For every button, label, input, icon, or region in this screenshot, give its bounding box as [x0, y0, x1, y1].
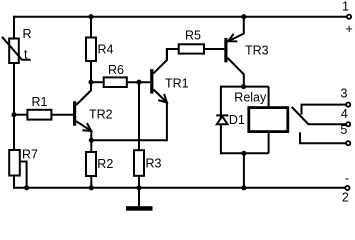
- wire R3 bottom to 0V rail: [138, 176, 140, 188]
- TR3 base bar: [224, 38, 227, 62]
- svg-text:4: 4: [341, 107, 348, 121]
- wire R4 bottom to TR2 collector node: [90, 61, 92, 82]
- transistor TR1 (NPN): [150, 49, 167, 103]
- relay coil: [249, 108, 288, 132]
- svg-text:TR1: TR1: [165, 77, 189, 91]
- svg-text:D1: D1: [229, 113, 245, 127]
- svg-text:5: 5: [340, 123, 347, 137]
- wire 0V rail to ground bar: [138, 188, 140, 206]
- transistor TR3 (PNP): [224, 17, 244, 87]
- svg-text:R7: R7: [22, 148, 38, 162]
- svg-text:2: 2: [342, 191, 349, 205]
- node B junction (R4 / R6 / TR2 collector): [88, 80, 93, 85]
- svg-text:R1: R1: [32, 95, 48, 109]
- TR3 emitter lead from + rail: [228, 17, 244, 42]
- TR1 emitter lead: [153, 89, 167, 102]
- TR1 collector lead up to R5 corner: [153, 49, 167, 73]
- resistor R2 body: [86, 152, 96, 176]
- wire relay right edge lower (from coil): [268, 131, 270, 153]
- junction R7 tap on 0V rail: [24, 185, 29, 190]
- junction TR3 emitter on + rail: [241, 14, 246, 19]
- relay RLA wiring loop: [221, 86, 269, 155]
- wire R1 right to TR2 base: [51, 114, 73, 116]
- resistor R4 body: [86, 38, 96, 62]
- ground bar: [126, 206, 153, 211]
- wire node C down to R3 top (crosses emitter bus): [138, 82, 140, 150]
- terminal 1 (+ supply): [347, 15, 351, 19]
- wire bottom 0V rail: [14, 187, 345, 189]
- terminal circle 3: [346, 103, 350, 107]
- junction R2 on 0V rail: [89, 185, 94, 190]
- junction R3 / ground on 0V rail: [136, 185, 141, 190]
- resistor R7 (preset, wiper tied to 0V): [9, 150, 26, 188]
- wire left vertical: rail corner down to thermistor top: [13, 16, 15, 39]
- terminal 2 (0V): [345, 186, 349, 190]
- wire relay left edge (through D1): [220, 86, 222, 155]
- node A junction (thermistor / R1 / R7): [11, 112, 16, 117]
- wire relay top edge: [221, 86, 269, 88]
- resistor R1 body: [27, 110, 51, 120]
- wire relay right edge upper (to coil): [268, 87, 270, 108]
- wire relay bottom to 0V rail: [243, 153, 245, 188]
- thermistor R: [2, 37, 31, 63]
- TR1 emitter arrowhead: [158, 94, 167, 103]
- wire common emitter bus node D to TR1 emitter: [91, 103, 167, 141]
- wire + rail to R4 top: [90, 17, 92, 38]
- resistor R6 body: [104, 77, 127, 87]
- wire node B to R6 left: [91, 81, 104, 83]
- diode D1 (flyback, cathode up): [216, 115, 228, 124]
- wire node D to R2 top: [90, 140, 92, 152]
- svg-text:+: +: [346, 22, 353, 36]
- resistor R5: [167, 44, 224, 60]
- terminal circle 5: [346, 141, 350, 145]
- TR2 collector lead up to node B: [76, 82, 91, 105]
- wire R6 right to TR1 base node: [127, 81, 150, 83]
- TR1 base bar: [150, 69, 153, 94]
- ground: [126, 188, 153, 211]
- TR2 emitter arrowhead: [82, 123, 91, 131]
- wire relay bottom edge: [221, 152, 269, 154]
- junction relay bottom edge to 0V: [241, 151, 246, 156]
- wire contact 3 with stub down: [302, 105, 347, 115]
- TR2 emitter lead down to emitter node: [76, 121, 91, 140]
- wire thermistor bottom down through node A to R7 top: [13, 63, 15, 150]
- terminal circle 4: [346, 122, 350, 126]
- svg-text:-: -: [345, 172, 349, 186]
- wire R2 bottom to 0V rail: [90, 176, 92, 188]
- svg-text:TR3: TR3: [245, 44, 269, 58]
- wire contact 5 with stub up: [300, 132, 346, 143]
- svg-text:R6: R6: [108, 63, 124, 77]
- contact 5 (normally closed): [300, 132, 350, 145]
- TR2 base bar: [73, 101, 76, 126]
- wire contact 4 with moving blade: [292, 107, 346, 124]
- resistor R3: [134, 82, 144, 188]
- junction TR3 collector on relay top edge: [241, 84, 246, 89]
- wire node A to R1 left: [14, 114, 27, 116]
- wire R7 tap to 0V rail: [20, 162, 27, 188]
- wire R5 right to TR3 base: [204, 48, 224, 50]
- resistor R6: [91, 77, 150, 87]
- TR3 collector lead down to relay: [228, 58, 244, 87]
- wire R7 bottom to 0V rail corner: [13, 176, 15, 189]
- resistor R1: [14, 110, 73, 120]
- TR3 emitter arrowhead (points to base): [228, 34, 237, 42]
- node C junction (R6 / TR1 base / R3): [136, 80, 141, 85]
- resistor R5 body: [179, 44, 204, 53]
- contact 3 (normally open): [302, 103, 351, 115]
- svg-text:1: 1: [342, 0, 349, 14]
- svg-text:t: t: [24, 48, 28, 62]
- wire TR1 collector corner to R5 left: [167, 49, 179, 61]
- resistor R3 body: [134, 150, 144, 176]
- junction relay wire on 0V rail: [241, 185, 246, 190]
- contact 4 (common pole with blade): [292, 107, 351, 126]
- svg-text:R3: R3: [146, 157, 162, 171]
- svg-text:R: R: [23, 27, 32, 41]
- svg-text:3: 3: [341, 87, 348, 101]
- resistor R7 body: [9, 150, 20, 176]
- wire top positive supply rail: [14, 16, 347, 18]
- svg-text:Relay: Relay: [234, 90, 267, 104]
- svg-text:R4: R4: [98, 43, 114, 57]
- transistor TR2 (NPN): [73, 82, 91, 140]
- svg-text:R2: R2: [97, 157, 113, 171]
- svg-text:TR2: TR2: [89, 108, 113, 122]
- node D junction (TR2 emitter / R2 / emitter bus): [89, 138, 94, 143]
- junction R4 top on + rail: [88, 14, 93, 19]
- resistor R4: [86, 14, 96, 82]
- svg-text:R5: R5: [185, 29, 201, 43]
- resistor R2: [86, 140, 96, 188]
